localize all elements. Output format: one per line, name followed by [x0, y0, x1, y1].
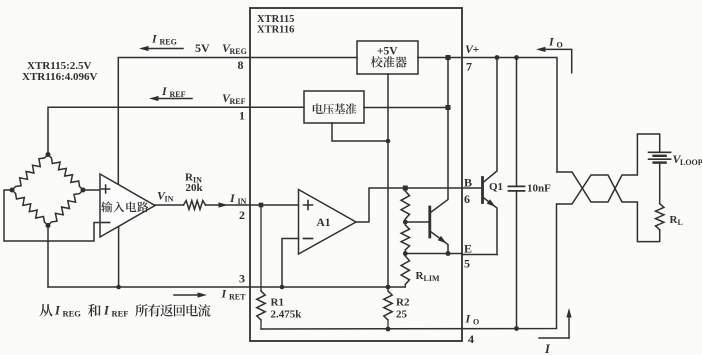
- svg-text:2.475k: 2.475k: [271, 309, 303, 321]
- node op-amp return junction: [116, 285, 121, 290]
- wire pin5 to Q1 emitter: [462, 254, 497, 256]
- wire VREF pin1 to bridge top: [48, 107, 250, 154]
- current arrow IO top: [542, 49, 572, 72]
- svg-text:A1: A1: [317, 217, 331, 229]
- svg-text:REG: REG: [230, 47, 247, 56]
- svg-text:REG: REG: [63, 309, 82, 319]
- op-amp U1 input circuit triangle: [100, 174, 155, 237]
- wire VREG pin8 to bridge supply: [118, 58, 250, 186]
- svg-text:E: E: [464, 242, 472, 256]
- svg-text:5: 5: [464, 257, 470, 271]
- op-amp U1 - symbol: [102, 222, 110, 224]
- note he (CJK): [88, 304, 101, 317]
- IC outline XTR115/XTR116: [250, 8, 462, 341]
- wire base tap to internal transistor: [405, 221, 429, 223]
- node bridge top: [46, 152, 51, 157]
- junction reference-rail: [446, 105, 451, 110]
- node bridge right: [81, 188, 86, 193]
- svg-text:25: 25: [396, 309, 408, 321]
- svg-text:REF: REF: [230, 97, 246, 106]
- note sentence rest (CJK): [135, 304, 210, 317]
- wire regulator bottom rail down: [387, 74, 389, 287]
- battery VLOOP: [649, 151, 671, 153]
- transistor internal emitter: [430, 231, 448, 254]
- wire E line pin5: [405, 253, 462, 255]
- wire opamp output to RIN: [155, 204, 184, 206]
- wire pin6 to Q1 base: [462, 187, 482, 189]
- svg-text:Q1: Q1: [489, 181, 503, 193]
- wire pin8 to regulator: [250, 57, 357, 59]
- wire V+ line to loop: [462, 58, 557, 173]
- bridge resistor bottom-left: [12, 190, 48, 226]
- capacitor C1 plates: [509, 185, 525, 187]
- svg-text:R2: R2: [396, 297, 410, 309]
- svg-text:O: O: [473, 318, 479, 327]
- junction base tap: [403, 220, 408, 225]
- svg-text:REF: REF: [112, 309, 129, 319]
- junction cap top: [514, 55, 519, 60]
- junction E tap: [403, 251, 408, 256]
- svg-text:XTR116: XTR116: [257, 25, 294, 36]
- op-amp A1 + symbol: [304, 201, 313, 210]
- junction reference bottom: [386, 139, 391, 144]
- current arrow IRET: [174, 294, 203, 296]
- resistor RIN 20k: [184, 201, 206, 210]
- wire A1 output up to base line: [356, 188, 462, 222]
- svg-text:+5V: +5V: [377, 46, 398, 58]
- current arrow IREG: [145, 48, 183, 50]
- current arrow IREF: [155, 98, 192, 100]
- svg-text:1: 1: [239, 109, 245, 123]
- junction Q1 collector on V+ wire: [495, 55, 500, 60]
- node bridge left: [10, 188, 15, 193]
- svg-text:+: +: [473, 42, 480, 56]
- block regulator CJK text: [371, 56, 407, 68]
- svg-text:IN: IN: [165, 195, 174, 204]
- twisted pair conductor B: [557, 175, 660, 242]
- wire regulator to V+ pin7: [418, 57, 462, 59]
- block voltage reference box: [304, 91, 364, 123]
- wire 5V supply into op-amp top: [117, 58, 119, 186]
- resistor RL: [656, 204, 664, 230]
- svg-text:3: 3: [239, 272, 245, 286]
- wire battery to RL: [659, 163, 661, 204]
- junction A1- IRET: [280, 285, 285, 290]
- op-amp U1 label input-circuit (CJK): [101, 201, 148, 212]
- svg-text:LIM: LIM: [424, 274, 440, 283]
- resistor chain top section: [401, 191, 409, 219]
- junction R1 tap: [259, 203, 264, 208]
- svg-text:R1: R1: [271, 297, 284, 309]
- capacitor C1 bottom lead: [516, 191, 518, 329]
- junction R2 bottom: [386, 327, 391, 332]
- wire pin1 to reference: [250, 106, 304, 108]
- junction emitter on E wire: [446, 251, 451, 256]
- wire bridge right to opamp + input: [83, 189, 100, 191]
- resistor RLIM: [401, 256, 409, 285]
- bridge resistor bottom-right: [48, 190, 83, 226]
- wire A1 - to IRET: [282, 239, 299, 288]
- svg-text:REF: REF: [170, 90, 186, 99]
- svg-text:8: 8: [238, 58, 244, 72]
- transistor internal base bar: [428, 207, 431, 237]
- op-amp A1 - symbol: [304, 238, 313, 240]
- svg-text:L: L: [678, 218, 683, 227]
- svg-text:IN: IN: [238, 197, 247, 206]
- junction V+ rail top: [446, 55, 451, 60]
- transistor internal collector: [430, 200, 448, 214]
- op-amp U1 + symbol: [102, 185, 110, 193]
- transistor Q1 base bar: [481, 178, 484, 203]
- svg-text:XTR115: XTR115: [257, 14, 294, 25]
- resistor chain mid section: [401, 225, 409, 250]
- svg-text:2: 2: [239, 208, 245, 222]
- resistor R2 25: [384, 291, 392, 320]
- wire bottom IO rail: [261, 204, 557, 329]
- wire V+ internal rail: [447, 58, 449, 199]
- wire RIN to pin 2 with IIN arrow: [206, 204, 251, 206]
- wire reference bottom L: [332, 123, 388, 141]
- block voltage reference CJK text: [313, 103, 357, 114]
- junction cap bottom: [514, 326, 519, 331]
- svg-text:10nF: 10nF: [527, 183, 551, 195]
- svg-text:RET: RET: [229, 293, 246, 302]
- capacitor C1 10nF top lead: [516, 58, 518, 187]
- wire bridge bottom to IRET rail: [47, 226, 49, 288]
- svg-text:LOOP: LOOP: [680, 158, 702, 167]
- svg-text:20k: 20k: [186, 182, 204, 194]
- svg-text:O: O: [557, 41, 563, 50]
- block +5V regulator box: [357, 41, 418, 74]
- twisted pair conductor A: [557, 134, 660, 202]
- svg-text:7: 7: [466, 60, 472, 74]
- wire reference to internal rail: [364, 107, 448, 109]
- wire IRET rail to pin 3: [48, 286, 405, 288]
- op-amp A1 triangle: [299, 190, 357, 255]
- junction R2 top: [386, 285, 391, 290]
- svg-text:XTR116:4.096V: XTR116:4.096V: [22, 71, 98, 83]
- wire bridge left to opamp - input (feedback loop): [4, 190, 100, 241]
- svg-text:6: 6: [464, 192, 470, 206]
- transistor Q1 emitter: [483, 197, 498, 255]
- wire pin2 to A1 +: [250, 204, 299, 206]
- node bridge bottom: [46, 223, 51, 228]
- note return currents sentence (CJK) part1: [39, 304, 52, 317]
- svg-text:4: 4: [468, 332, 474, 346]
- bridge resistor top-right: [48, 155, 83, 191]
- junction chain top on base line: [403, 186, 408, 191]
- current arrow I bottom: [539, 337, 569, 339]
- svg-text:5V: 5V: [195, 41, 210, 55]
- wire op-amp return to IRET: [118, 227, 120, 287]
- resistor R1 2.475k: [260, 205, 262, 291]
- bridge resistor top-left: [12, 155, 48, 191]
- svg-text:REG: REG: [160, 38, 177, 47]
- transistor Q1 collector: [483, 58, 498, 184]
